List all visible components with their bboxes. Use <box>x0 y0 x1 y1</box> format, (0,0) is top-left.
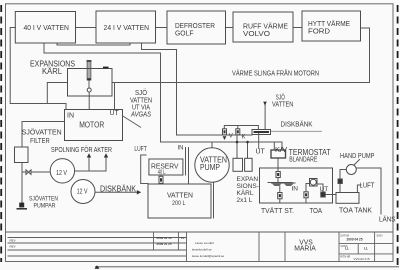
svg-text:200 L: 200 L <box>172 201 186 207</box>
svg-text:VATTEN: VATTEN <box>130 97 152 104</box>
svg-text:VVS-02 K B: VVS-02 K B <box>353 257 369 261</box>
svg-text:VOLVO: VOLVO <box>243 29 270 38</box>
svg-text:SJÖ: SJÖ <box>135 89 147 97</box>
svg-text:40 I V VATTEN: 40 I V VATTEN <box>23 23 69 32</box>
svg-text:V: V <box>229 133 233 139</box>
svg-text:LUFT: LUFT <box>134 146 147 153</box>
svg-text:GOLF: GOLF <box>175 29 194 38</box>
svg-text:SIGN: SIGN <box>377 234 383 237</box>
svg-text:K: K <box>242 134 246 140</box>
svg-text:KÄRL: KÄRL <box>237 189 254 197</box>
svg-text:PUMP: PUMP <box>200 163 220 172</box>
svg-text:K/V: K/V <box>275 145 287 154</box>
svg-text:2009 04 25: 2009 04 25 <box>347 238 363 242</box>
svg-text:HAND PUMP: HAND PUMP <box>340 153 375 160</box>
svg-text:BLANDARE: BLANDARE <box>289 157 317 164</box>
svg-text:LÄNS: LÄNS <box>379 216 396 224</box>
svg-text:12 V: 12 V <box>56 170 67 177</box>
svg-text:GODK: GODK <box>341 245 348 248</box>
svg-text:TOA TANK: TOA TANK <box>339 208 372 215</box>
svg-text:MARIA: MARIA <box>294 246 316 253</box>
svg-text:UT: UT <box>256 149 266 156</box>
svg-text:IN: IN <box>178 146 184 152</box>
svg-text:FILTER: FILTER <box>30 138 50 145</box>
svg-text:SIONS-: SIONS- <box>237 183 259 190</box>
svg-text:SJÖVATTEN: SJÖVATTEN <box>29 194 58 202</box>
svg-text:PUMPAR: PUMPAR <box>34 203 56 210</box>
svg-text:DISKBÄNK: DISKBÄNK <box>100 185 137 194</box>
svg-text:SJÖVATTEN: SJÖVATTEN <box>22 128 62 137</box>
svg-text:2009 01 25: 2009 01 25 <box>157 242 172 246</box>
svg-text:12 V: 12 V <box>77 188 88 195</box>
svg-text:REV: REV <box>10 245 16 249</box>
svg-text:FORD: FORD <box>308 27 331 36</box>
svg-text:REV: REV <box>10 239 16 243</box>
svg-text:IN: IN <box>67 113 74 120</box>
svg-text:VATTEN: VATTEN <box>167 191 193 200</box>
svg-text:SJÖ: SJÖ <box>276 93 285 101</box>
svg-text:AVGAS: AVGAS <box>130 112 151 119</box>
svg-text:IN: IN <box>292 186 299 193</box>
svg-text:UT: UT <box>320 186 329 193</box>
svg-text:RITN NR: RITN NR <box>341 255 351 258</box>
svg-text:VATTEN: VATTEN <box>272 101 293 108</box>
svg-text:24 I V VATTEN: 24 I V VATTEN <box>104 23 150 32</box>
svg-text:2x1 L: 2x1 L <box>237 197 253 204</box>
svg-text:Lasse Lundell: Lasse Lundell <box>195 241 214 245</box>
svg-text:TOA: TOA <box>310 208 323 215</box>
svg-text:2009 02 10: 2009 02 10 <box>157 236 172 240</box>
svg-text:UT VIA: UT VIA <box>132 105 150 112</box>
svg-text:LUFT: LUFT <box>360 183 376 190</box>
svg-text:lasse.lundell@spanik.se: lasse.lundell@spanik.se <box>192 254 225 258</box>
svg-text:LL: LL <box>364 246 368 250</box>
svg-text:DISKBÄNK: DISKBÄNK <box>281 121 313 129</box>
svg-text:EXPAN: EXPAN <box>237 176 259 183</box>
svg-text:VÄRME SLINGA FRÅN MOTORN: VÄRME SLINGA FRÅN MOTORN <box>232 69 319 78</box>
svg-text:DATUM: DATUM <box>341 234 349 237</box>
svg-text:SPOLNING FÖR AKTER: SPOLNING FÖR AKTER <box>51 146 112 154</box>
svg-text:40 L: 40 L <box>158 170 166 176</box>
svg-text:LL: LL <box>181 236 185 240</box>
svg-text:UT: UT <box>110 110 120 117</box>
svg-text:TVÄTT ST.: TVÄTT ST. <box>261 207 294 215</box>
svg-text:KÄRL: KÄRL <box>42 67 63 76</box>
svg-text:MOTOR: MOTOR <box>79 120 104 130</box>
svg-text:lasselundell.se: lasselundell.se <box>192 247 212 251</box>
